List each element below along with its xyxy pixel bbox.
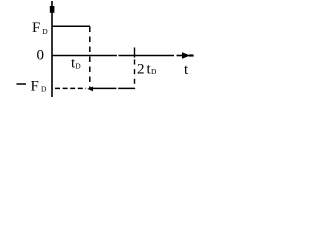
svg-text:2: 2	[137, 62, 145, 78]
svg-text:F: F	[31, 79, 39, 95]
svg-text:D: D	[42, 27, 48, 36]
svg-text:D: D	[75, 62, 81, 71]
svg-text:t: t	[184, 62, 189, 78]
svg-text:D: D	[151, 67, 157, 76]
svg-text:0: 0	[37, 48, 45, 64]
svg-text:D: D	[41, 85, 47, 94]
svg-text:F: F	[32, 20, 40, 36]
